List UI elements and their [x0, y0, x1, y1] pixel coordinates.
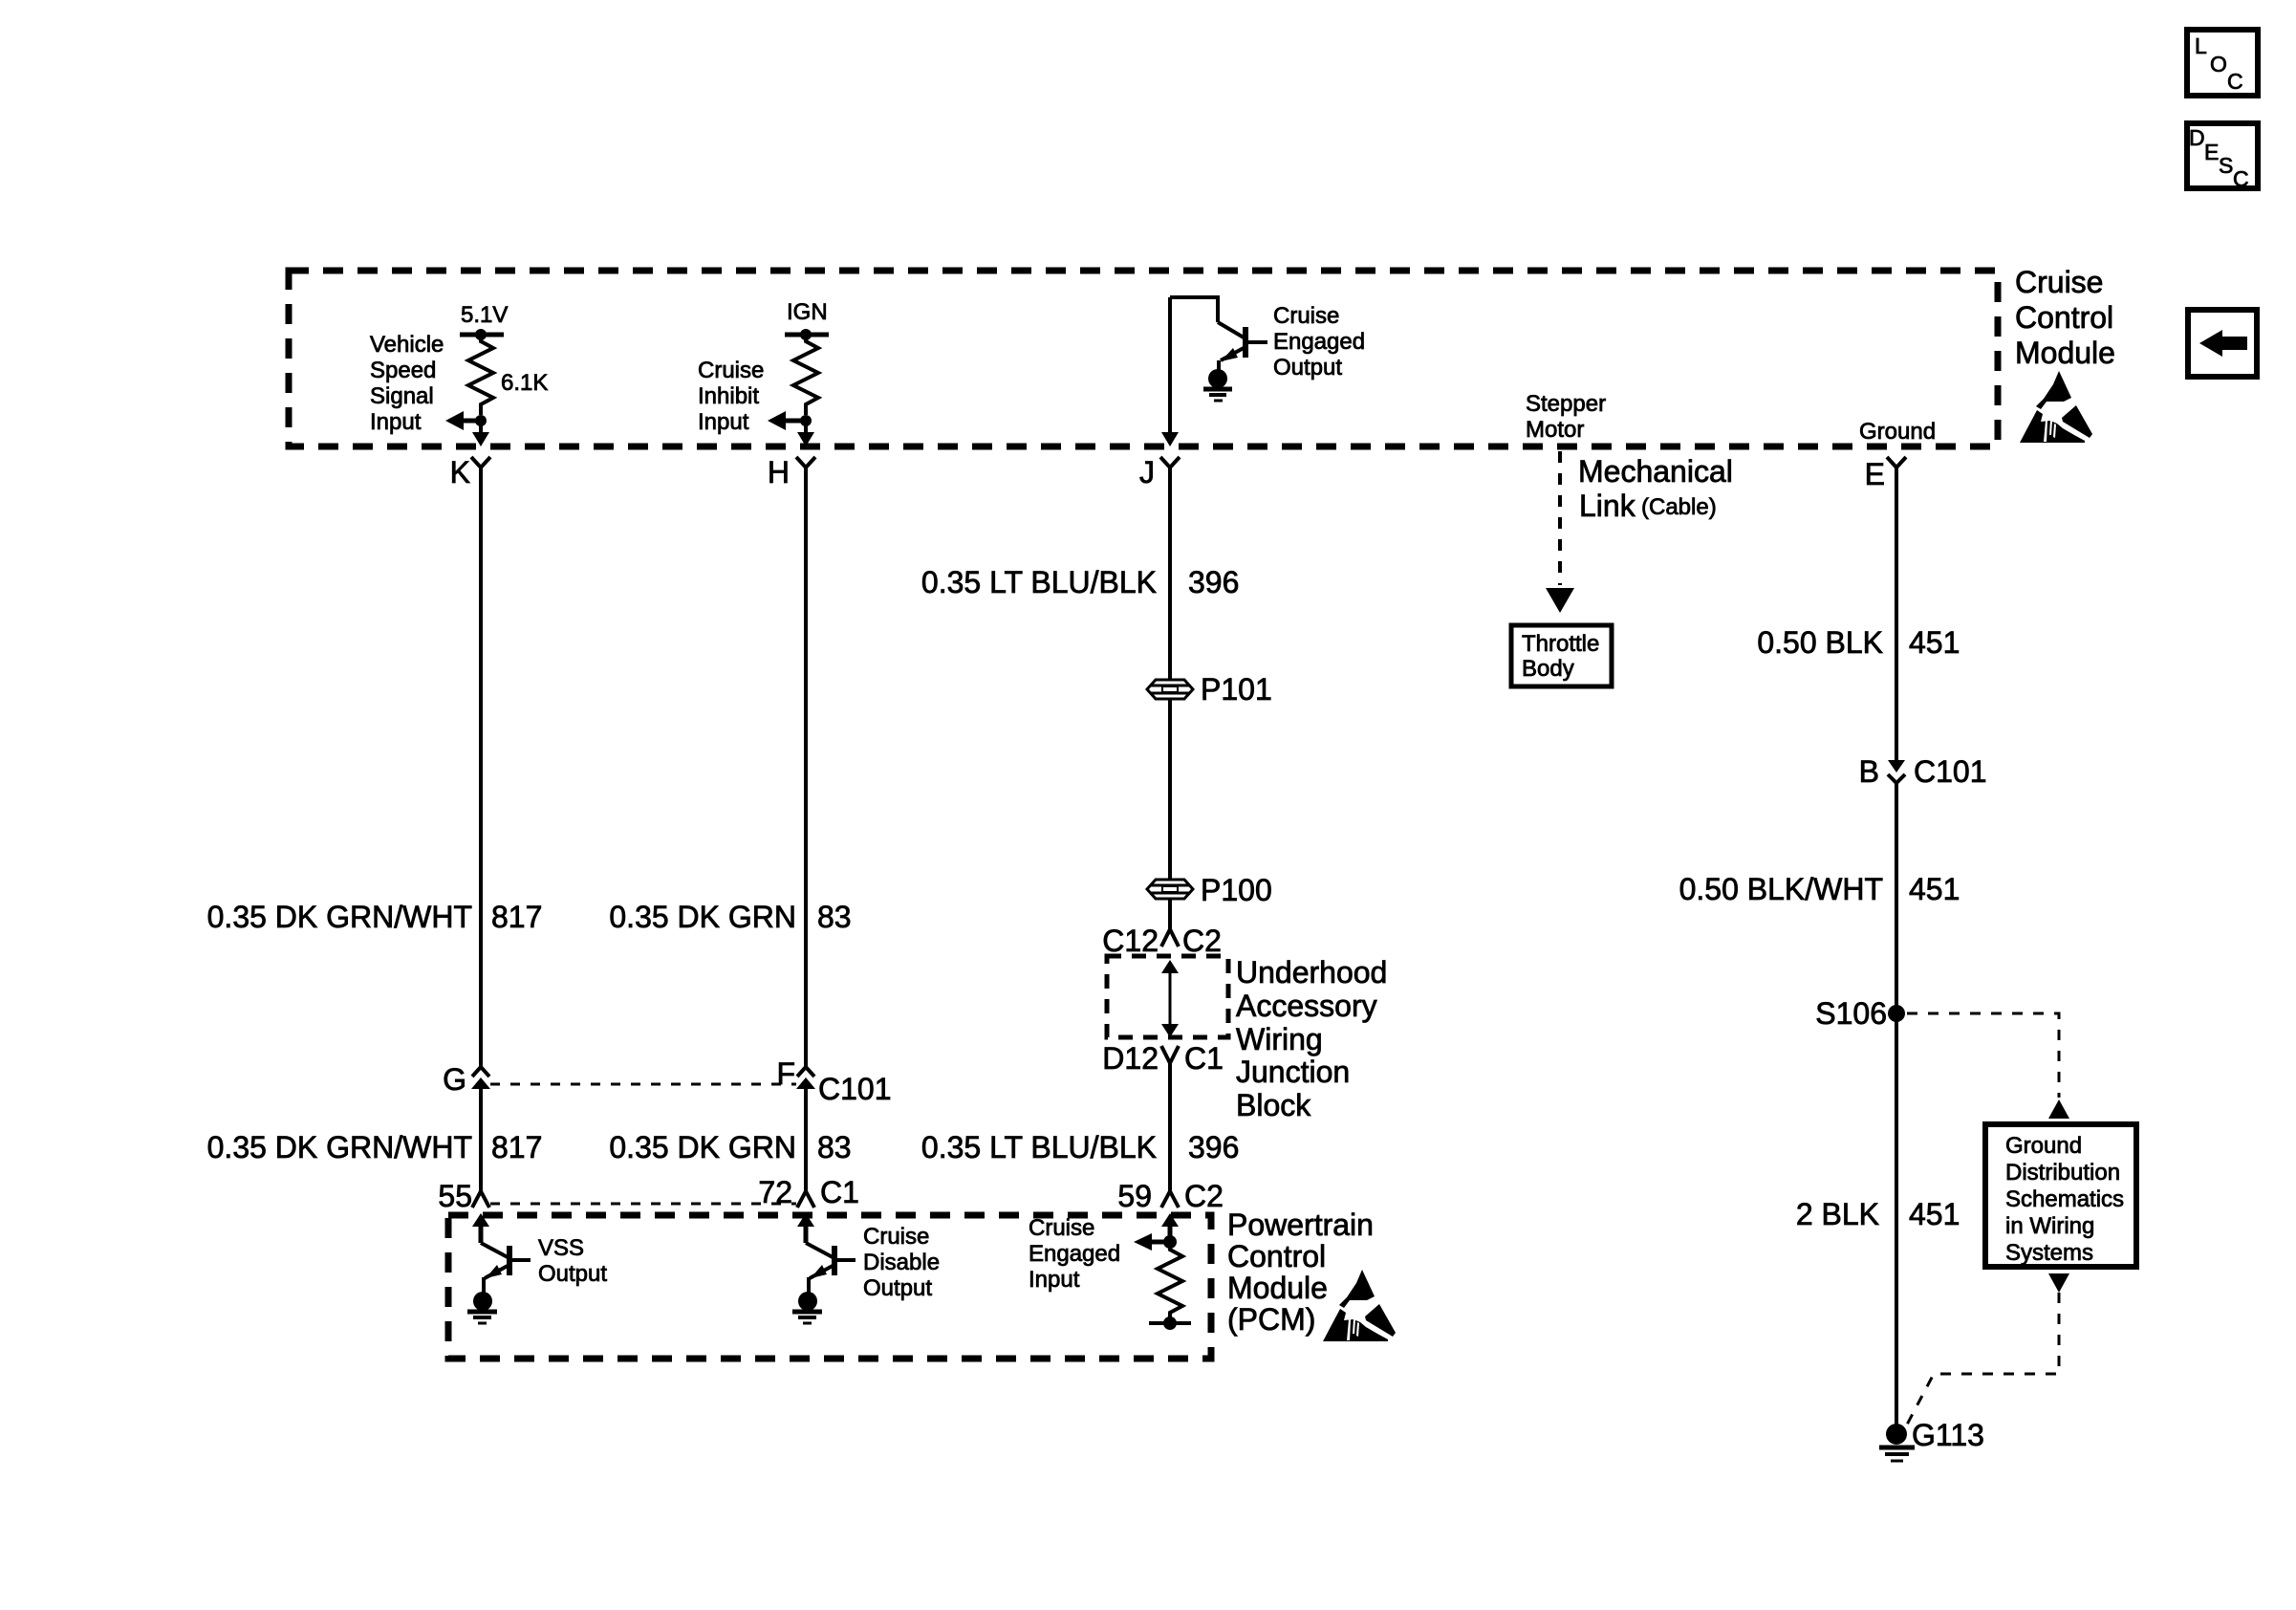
Cruise Disable Output label [863, 1224, 940, 1301]
svg-text:Cruise: Cruise [1273, 303, 1339, 329]
cruise engaged input left arrow [1134, 1233, 1170, 1251]
svg-text:Control: Control [1227, 1239, 1326, 1273]
svg-text:(PCM): (PCM) [1227, 1302, 1315, 1337]
svg-text:Output: Output [538, 1261, 607, 1287]
Underhood Accessory Wiring Junction Block dashed box [1107, 956, 1228, 1037]
Throttle Body label [1522, 631, 1599, 682]
svg-text:396: 396 [1188, 1130, 1239, 1164]
dashed link G to F [490, 1083, 796, 1086]
node at IGN supply [800, 329, 812, 340]
svg-text:D: D [2189, 125, 2205, 150]
transistor Q1 cruise engaged output [1218, 322, 1267, 361]
svg-text:Speed: Speed [370, 358, 436, 383]
svg-text:Link: Link [1579, 489, 1636, 523]
wire K internal with arrowhead to pin K [472, 421, 489, 446]
dashed reference link to G113 [1906, 1293, 2059, 1426]
junction block internal arrow (up) [1161, 960, 1179, 973]
junction block internal arrow (down) [1161, 1024, 1179, 1037]
svg-text:P101: P101 [1201, 672, 1272, 707]
splice node S106 [1888, 1005, 1905, 1022]
svg-text:E: E [2204, 140, 2219, 164]
reference arrow (down) [2048, 1273, 2069, 1293]
svg-text:451: 451 [1909, 625, 1960, 660]
junction block internal wire [1169, 971, 1172, 1026]
svg-text:Module: Module [2015, 336, 2115, 370]
dashed link 55 to 72 [490, 1203, 796, 1206]
LOC reference box [2187, 30, 2258, 96]
svg-text:Ground: Ground [1859, 419, 1936, 445]
node (resistor bottom) [1163, 1316, 1177, 1330]
node at 5.1V supply [475, 329, 487, 340]
connector B half (chevron) [1888, 774, 1905, 783]
svg-text:E: E [1865, 457, 1885, 491]
svg-text:817: 817 [491, 900, 542, 934]
Powertrain Control Module dashed box [448, 1215, 1211, 1359]
transistor Q3 cruise disable output [806, 1243, 856, 1278]
Powertrain Control Module (PCM) label [1227, 1207, 1374, 1337]
svg-text:C1: C1 [820, 1175, 859, 1209]
node (cruise engaged input) [1163, 1235, 1177, 1249]
pin H connector [796, 457, 815, 468]
svg-text:Output: Output [863, 1275, 932, 1301]
svg-text:Mechanical: Mechanical [1578, 454, 1733, 489]
svg-text:451: 451 [1909, 1197, 1960, 1231]
ESD sensitive symbol (PCM) [1323, 1270, 1396, 1341]
svg-text:C101: C101 [818, 1072, 892, 1106]
svg-text:K: K [450, 455, 470, 490]
wire J lower segment [1168, 1063, 1172, 1191]
svg-text:C12: C12 [1102, 924, 1159, 958]
svg-text:Disable: Disable [863, 1250, 940, 1275]
IGN supply bar [785, 333, 829, 337]
node K junction [475, 415, 487, 426]
svg-text:C101: C101 [1914, 754, 1987, 789]
connector F arrowhead [796, 1077, 815, 1089]
wire H internal with arrowhead to pin H [797, 421, 814, 446]
wire E middle segment [1895, 783, 1898, 1425]
svg-text:F: F [776, 1056, 795, 1091]
connector B arrowhead [1888, 760, 1905, 772]
wire J segment to P101 [1168, 468, 1172, 681]
wire label 0.35 LT BLU/BLK 396 (upper) [921, 565, 1239, 599]
svg-text:IGN: IGN [787, 299, 828, 325]
wire label 0.50 BLK/WHT 451 [1679, 872, 1960, 906]
svg-text:C2: C2 [1184, 1179, 1224, 1213]
svg-text:Input: Input [698, 409, 749, 435]
svg-text:Engaged: Engaged [1029, 1241, 1120, 1267]
ground (VSS output emitter) [467, 1277, 497, 1323]
svg-text:Distribution: Distribution [2005, 1160, 2120, 1186]
mechanical link dashed wire [1558, 451, 1562, 585]
mechanical link arrowhead [1546, 588, 1574, 613]
svg-text:D12: D12 [1102, 1041, 1159, 1076]
svg-text:Block: Block [1236, 1088, 1311, 1122]
connector at pin 55 [472, 1191, 489, 1207]
wire label 0.50 BLK 451 [1757, 625, 1960, 660]
wire label 0.35 DK GRN 83 (upper) [609, 900, 851, 934]
svg-text:Schematics: Schematics [2005, 1186, 2124, 1212]
svg-text:in Wiring: in Wiring [2005, 1213, 2094, 1239]
wire E upper segment [1895, 468, 1898, 760]
connector at pin 72 [797, 1191, 814, 1207]
svg-text:0.35 LT BLU/BLK: 0.35 LT BLU/BLK [921, 1130, 1157, 1164]
svg-text:Ground: Ground [2005, 1133, 2082, 1159]
ground (cruise engaged output emitter) [1203, 360, 1232, 401]
cruise engaged input collector arrow [1161, 1213, 1179, 1242]
VSS Output label [538, 1235, 607, 1287]
Stepper Motor label [1526, 391, 1606, 443]
cruise inhibit arrow [768, 411, 806, 430]
pin K connector [471, 457, 490, 468]
svg-text:0.35 DK GRN/WHT: 0.35 DK GRN/WHT [207, 900, 472, 934]
svg-text:B: B [1859, 754, 1879, 789]
svg-text:Body: Body [1522, 656, 1574, 682]
svg-text:83: 83 [817, 1130, 852, 1164]
wire H lower segment [804, 1088, 808, 1191]
wire label 0.35 DK GRN/WHT 817 (lower) [207, 1130, 543, 1164]
Ground Distribution Schematics label [2005, 1133, 2124, 1266]
ESD sensitive symbol (cruise control module) [2020, 371, 2092, 443]
svg-text:Accessory: Accessory [1236, 989, 1377, 1023]
wire K lower segment [479, 1088, 483, 1191]
svg-text:Module: Module [1227, 1271, 1328, 1305]
node H junction [800, 415, 812, 426]
svg-text:Cruise: Cruise [698, 358, 764, 383]
svg-text:817: 817 [491, 1130, 542, 1164]
svg-text:396: 396 [1188, 565, 1239, 599]
svg-text:59: 59 [1117, 1179, 1152, 1213]
pin J connector [1160, 457, 1180, 468]
svg-text:Junction: Junction [1236, 1055, 1350, 1089]
wire J segment P100 to C12 [1168, 899, 1172, 929]
back-arrow navigation box [2188, 310, 2257, 377]
Vehicle Speed Signal Input label [370, 332, 444, 435]
svg-text:G113: G113 [1912, 1418, 1984, 1452]
svg-text:Cruise: Cruise [863, 1224, 929, 1250]
svg-text:C: C [2233, 166, 2249, 191]
wire J internal (collector feed) [1170, 297, 1218, 322]
svg-text:Powertrain: Powertrain [1227, 1207, 1374, 1242]
svg-text:Stepper: Stepper [1526, 391, 1606, 417]
svg-text:0.50 BLK: 0.50 BLK [1757, 625, 1883, 660]
svg-text:Signal: Signal [370, 383, 434, 409]
transistor Q3 cruise disable output collector arrow [797, 1213, 814, 1243]
svg-text:Underhood: Underhood [1236, 955, 1387, 990]
wire H upper segment [804, 468, 808, 1067]
DESC reference box [2187, 123, 2258, 191]
svg-text:S106: S106 [1815, 996, 1887, 1031]
reference arrow (up) [2048, 1099, 2069, 1119]
svg-text:2 BLK: 2 BLK [1796, 1197, 1879, 1231]
svg-text:0.50 BLK/WHT: 0.50 BLK/WHT [1679, 872, 1883, 906]
svg-text:Input: Input [1029, 1267, 1080, 1293]
pass-through grommet P100 [1147, 880, 1193, 899]
svg-text:Cruise: Cruise [2015, 265, 2103, 299]
svg-text:Control: Control [2015, 300, 2113, 335]
svg-text:C1: C1 [1184, 1041, 1224, 1076]
transistor Q2 VSS output [481, 1243, 531, 1278]
connector at pin 59 [1161, 1191, 1179, 1207]
transistor Q2 VSS output collector arrow [472, 1213, 489, 1243]
resistor (cruise inhibit pull-up) [793, 335, 818, 415]
svg-text:C: C [2227, 69, 2243, 94]
ground G113 symbol [1879, 1447, 1915, 1461]
resistor (cruise engaged input) [1158, 1242, 1182, 1323]
wire label 0.35 LT BLU/BLK 396 (lower) [921, 1130, 1239, 1164]
wire J internal vertical with arrowhead to pin J [1161, 297, 1179, 446]
svg-text:451: 451 [1909, 872, 1960, 906]
ground G113 node [1886, 1424, 1907, 1445]
wire label 0.35 DK GRN 83 (lower) [609, 1130, 851, 1164]
svg-text:S: S [2219, 153, 2233, 178]
svg-text:O: O [2210, 52, 2227, 76]
pin E connector [1887, 457, 1906, 468]
Cruise Control Module label [2015, 265, 2115, 370]
svg-text:83: 83 [817, 900, 852, 934]
svg-text:J: J [1139, 455, 1155, 490]
svg-text:(Cable): (Cable) [1641, 494, 1717, 520]
connector G arrowhead [471, 1077, 490, 1089]
svg-text:H: H [768, 455, 790, 490]
Throttle Body box [1511, 625, 1612, 686]
svg-text:Inhibit: Inhibit [698, 383, 759, 409]
Cruise Inhibit Input label [698, 358, 764, 435]
pass-through grommet P101 [1147, 680, 1193, 699]
svg-text:Engaged: Engaged [1273, 329, 1365, 355]
svg-text:0.35 DK GRN: 0.35 DK GRN [609, 1130, 796, 1164]
Mechanical Link (Cable) label [1578, 454, 1733, 523]
resistor 6.1K [468, 335, 493, 415]
Cruise Engaged Output label [1273, 303, 1365, 381]
svg-text:Throttle: Throttle [1522, 631, 1599, 657]
connector F half (chevron) [797, 1067, 814, 1077]
svg-text:G: G [443, 1062, 466, 1097]
Cruise Engaged Input label [1029, 1215, 1120, 1293]
wire K upper segment [479, 468, 483, 1067]
svg-text:VSS: VSS [538, 1235, 584, 1261]
svg-text:0.35 DK GRN/WHT: 0.35 DK GRN/WHT [207, 1130, 472, 1164]
svg-text:Vehicle: Vehicle [370, 332, 444, 358]
svg-text:Motor: Motor [1526, 417, 1584, 443]
svg-text:0.35 DK GRN: 0.35 DK GRN [609, 900, 796, 934]
svg-text:Input: Input [370, 409, 422, 435]
svg-text:C2: C2 [1182, 924, 1222, 958]
svg-text:Cruise: Cruise [1029, 1215, 1094, 1241]
svg-text:6.1K: 6.1K [501, 370, 548, 396]
svg-text:Output: Output [1273, 355, 1342, 381]
wire J segment P101 to P100 [1168, 699, 1172, 881]
5.1V supply bar [460, 333, 504, 337]
vehicle speed signal arrow [445, 411, 481, 430]
connector D12 half [1161, 1046, 1179, 1063]
svg-text:L: L [2195, 33, 2207, 58]
svg-text:Systems: Systems [2005, 1240, 2093, 1266]
Underhood Accessory Wiring Junction Block label [1236, 955, 1387, 1122]
wire label 0.35 DK GRN/WHT 817 (upper) [207, 900, 543, 934]
connector C12 half [1161, 929, 1179, 946]
svg-text:Wiring: Wiring [1236, 1022, 1323, 1056]
Cruise Control Module dashed box [289, 271, 1998, 446]
connector G half (chevron) [472, 1067, 489, 1077]
dashed reference link from S106 [1907, 1013, 2059, 1098]
resistor bottom rail [1149, 1321, 1191, 1325]
ground (cruise disable emitter) [792, 1277, 822, 1323]
Ground Distribution Schematics box [1985, 1124, 2136, 1267]
svg-text:0.35 LT BLU/BLK: 0.35 LT BLU/BLK [921, 565, 1157, 599]
svg-text:55: 55 [438, 1179, 472, 1213]
svg-text:P100: P100 [1201, 873, 1272, 907]
svg-text:5.1V: 5.1V [461, 302, 508, 328]
wire label 2 BLK 451 [1796, 1197, 1960, 1231]
